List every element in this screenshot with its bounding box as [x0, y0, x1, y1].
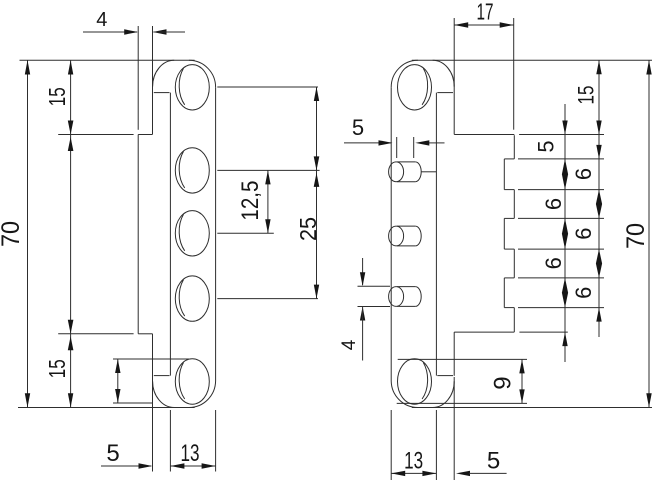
dim 4 line left shaft: [83, 31, 137, 33]
dim 9 arrow up: [519, 359, 524, 373]
bottom connector edge of rolled sheet: [154, 375, 170, 377]
dim 12,5 line: [267, 170, 269, 233]
dim 4 pin lower shaft: [362, 307, 364, 361]
svg-text:6: 6: [541, 257, 566, 269]
pin 1 right cap: [415, 162, 421, 182]
dim 9 top ext: [398, 358, 527, 360]
hole 4 crescent: [179, 280, 185, 317]
tooth2 right edge: [513, 190, 515, 219]
dim 5 pin left arrow: [379, 140, 393, 145]
plate left edge lower ext to 5 dim: [453, 377, 455, 480]
pin 3 right cap: [415, 287, 421, 307]
leaf middle edge x=138.2: [137, 135, 139, 334]
pin 1 end face: [389, 162, 404, 182]
pin 2 right cap: [415, 226, 421, 246]
pin 2 top edge: [397, 225, 415, 227]
svg-text:5: 5: [534, 140, 559, 152]
bottom curl arc: [153, 381, 175, 407]
arrow pair at 333.8 down: [68, 320, 74, 334]
pin 1 top edge: [397, 161, 415, 163]
dim 9 arrow down: [519, 389, 524, 403]
tooth2 bottom edge: [504, 217, 514, 219]
unlabeled 9 top ext: [113, 358, 189, 360]
svg-text:15: 15: [44, 87, 70, 106]
dim 13 right right arrow: [422, 471, 436, 476]
svg-text:5: 5: [352, 115, 364, 140]
top connector edge of rolled sheet: [154, 92, 170, 94]
hole 5 crescent: [179, 363, 185, 400]
notch1 floor: [503, 159, 505, 190]
hole 2: [175, 148, 209, 193]
col A diamond 218.4-249.1: [562, 218, 568, 249]
barrel left edge ext to 13 dim: [390, 410, 392, 480]
chain ext line y=307.6: [518, 307, 604, 309]
col A diamond 277.9-307.6: [562, 278, 568, 308]
col B diamond 189.6-218.4: [596, 190, 602, 219]
unlabeled 9 arrow down: [115, 389, 120, 403]
svg-text:4: 4: [339, 339, 360, 350]
col B down arrow at 158.9: [596, 145, 601, 159]
pin 3 end face: [389, 287, 404, 307]
hole 1 crescent: [179, 68, 185, 105]
hole bottom right: [398, 359, 432, 404]
tooth3 top edge: [504, 248, 514, 250]
dim 5 bottom line: [101, 465, 151, 467]
bottom curl arc right: [433, 381, 455, 407]
hole 3: [175, 211, 209, 256]
dim 5 right shaft: [469, 472, 507, 474]
hole3 ext line: [217, 232, 273, 234]
dim 15 bottom arrow down: [68, 393, 73, 407]
dim 70 left arrow up: [25, 60, 30, 74]
svg-text:4: 4: [96, 9, 107, 31]
svg-text:6: 6: [541, 198, 566, 210]
pin 1 axis line: [421, 171, 436, 173]
dim 5 pin left shaft: [344, 142, 391, 144]
barrel right edge ext to 13 dim: [435, 410, 437, 480]
dim 4 right arrow: [153, 29, 167, 34]
pin 3 bottom edge: [397, 305, 415, 307]
ledge right edge: [513, 308, 515, 333]
capsule left edge extension to 13 dim: [169, 410, 171, 472]
arrow pair at 134.5 up: [68, 137, 74, 151]
dim 70 right arrow down: [646, 393, 651, 407]
svg-text:15: 15: [574, 86, 599, 105]
top edge line (part + extension): [412, 59, 652, 61]
pin 2 bottom edge: [397, 245, 415, 247]
dim 17 line: [454, 24, 514, 26]
unlabeled 9 bottom ext: [113, 402, 153, 404]
svg-text:5: 5: [106, 440, 119, 467]
hole top right: [398, 65, 432, 110]
dim 25 top arrow up: [314, 87, 319, 101]
bottom cap arc: [189, 381, 216, 408]
tooth2 top edge: [504, 189, 514, 191]
chain ext line y=218.4: [518, 217, 604, 219]
bottom edge line (part + extension): [412, 407, 652, 409]
pin 1 bottom edge: [397, 181, 415, 183]
dim 13 line: [170, 465, 215, 467]
dim 4 pin down arrow: [360, 272, 365, 286]
chain col A shaft: [564, 104, 566, 362]
svg-text:70: 70: [0, 221, 25, 247]
svg-text:70: 70: [622, 223, 650, 249]
upper step of leaf: [138, 134, 152, 136]
arrow pair at hole2 up: [314, 173, 320, 187]
hole top right crescent: [422, 68, 428, 105]
arrow pair at 333.8 up: [68, 336, 74, 350]
col A up arrow at 332.1: [562, 332, 567, 346]
chain ext line y=332.1: [519, 331, 567, 333]
svg-text:13: 13: [181, 440, 200, 467]
hole 5: [175, 359, 209, 404]
dim 9 line: [521, 359, 523, 403]
dim 5 pin right arrow: [415, 140, 429, 145]
svg-text:12,5: 12,5: [237, 181, 264, 221]
comb bottom edge: [454, 331, 514, 333]
barrel right edge: [435, 93, 437, 376]
dim 25 line: [316, 87, 318, 299]
svg-text:13: 13: [404, 447, 423, 474]
dim 12,5 arrow up: [265, 170, 270, 184]
dim 70 left line: [27, 60, 29, 407]
svg-text:15: 15: [44, 359, 70, 378]
svg-text:6: 6: [571, 287, 596, 299]
col B diamond 249.1-277.9: [596, 249, 602, 278]
top cap arc right: [391, 60, 418, 87]
plate left edge upper (454.2) with ext for 17: [453, 18, 455, 134]
svg-text:6: 6: [571, 227, 596, 239]
hole4 ext line: [217, 298, 318, 300]
hole bottom right crescent: [422, 363, 428, 400]
tooth1 bottom edge: [504, 158, 514, 160]
dim 70 left arrow down: [25, 393, 30, 407]
hole 3 crescent: [179, 214, 185, 251]
dim 4 left arrow: [124, 29, 138, 34]
dim 15 top ext line: [58, 134, 133, 136]
tooth1 top step line: [454, 134, 514, 136]
tab right edge with ext for 17: [513, 18, 515, 130]
dim 13 right left arrow: [391, 471, 405, 476]
capsule left edge: [169, 93, 171, 376]
pin 2 end face: [389, 226, 404, 246]
dim 17 left arrow: [454, 22, 468, 27]
dim 15 chain line: [70, 60, 72, 407]
chain ext line y=189.6: [518, 189, 604, 191]
dim 5 pin right ext: [413, 137, 415, 158]
ledge top edge: [504, 307, 514, 309]
hole 1: [175, 65, 209, 110]
dim 4 pin up arrow: [360, 307, 365, 321]
unlabeled 9 dim line left view: [117, 359, 119, 403]
svg-text:6: 6: [571, 168, 596, 180]
arrow pair at hole2 down: [314, 156, 320, 170]
tooth3 right edge: [513, 249, 515, 278]
dim 25 bottom arrow down: [314, 285, 319, 299]
notch2 floor: [503, 218, 505, 249]
top edge line (part + extension for 70/15 dims): [20, 59, 195, 61]
top connector right: [437, 92, 453, 94]
col B up arrow at 307.6: [596, 308, 601, 322]
dim 12,5 arrow down: [265, 219, 270, 233]
pin 3 top edge: [397, 286, 415, 288]
hole 4: [175, 276, 209, 321]
tooth3 bottom edge: [504, 277, 514, 279]
top curl arc: [153, 60, 175, 86]
dim 4 pin bottom ext: [358, 306, 391, 308]
capsule right edge extension to 13 dim: [215, 410, 217, 472]
bottom edge line (part + extension): [18, 407, 195, 409]
chain ext line y=158.9: [518, 158, 604, 160]
chain col B shaft: [598, 60, 600, 337]
leaf upper edge x=152.5 (edge + ext above for dim 4): [152, 26, 154, 134]
svg-text:5: 5: [487, 447, 500, 474]
dim 17 right arrow: [500, 22, 514, 27]
leaf lower edge x=152.5 (edge + ext below for dim 5): [152, 334, 154, 472]
arrow pair at 134.5 down: [68, 121, 74, 135]
hole1 ext line: [217, 86, 318, 88]
lower step of leaf: [138, 333, 152, 335]
top curl arc right: [433, 60, 455, 86]
svg-text:9: 9: [490, 376, 517, 389]
col B up arrow at 60.3: [596, 60, 601, 74]
dim 13 left arrow: [170, 463, 184, 468]
dim 15 top arrow up: [68, 60, 73, 74]
bottom cap arc right: [391, 381, 418, 408]
dim 13 right arrow: [202, 463, 216, 468]
notch3 floor: [503, 278, 505, 308]
dim 15 bottom ext line: [58, 333, 133, 335]
col A down arrow at 134.5: [562, 121, 567, 135]
capsule right edge: [215, 87, 217, 380]
tooth1 right edge: [513, 135, 515, 159]
dim 5 right arrow: [456, 471, 470, 476]
chain ext line y=277.9: [518, 277, 604, 279]
dim 70 right arrow up: [646, 60, 651, 74]
top cap arc: [189, 60, 216, 87]
hole2 ext line: [217, 169, 319, 171]
svg-text:17: 17: [477, 0, 494, 25]
dim 4 pin top ext: [358, 285, 391, 287]
dim 9 bottom ext: [397, 402, 527, 404]
barrel left edge: [390, 87, 392, 380]
dim 70 right line: [648, 60, 650, 407]
svg-text:25: 25: [295, 217, 321, 241]
dim 4 pin upper shaft: [362, 258, 364, 285]
dim 5 pin right shaft: [429, 142, 445, 144]
unlabeled 9 arrow up: [115, 359, 120, 373]
dim 4 right shaft: [154, 31, 186, 33]
plate left edge lower: [453, 332, 455, 376]
dim 5 pin left ext: [396, 137, 398, 158]
extension line x=138.2 for dim 4: [137, 26, 139, 130]
chain ext line y=249.1: [518, 248, 604, 250]
chain ext line y=134.5: [519, 134, 604, 136]
dim 5 bottom arrow: [139, 463, 153, 468]
col A diamond 158.9-189.6: [562, 159, 568, 190]
hole 2 crescent: [179, 151, 185, 188]
col B down arrow at 134.5: [596, 121, 601, 135]
bottom connector right: [437, 375, 453, 377]
dim 13 right line: [391, 472, 436, 474]
